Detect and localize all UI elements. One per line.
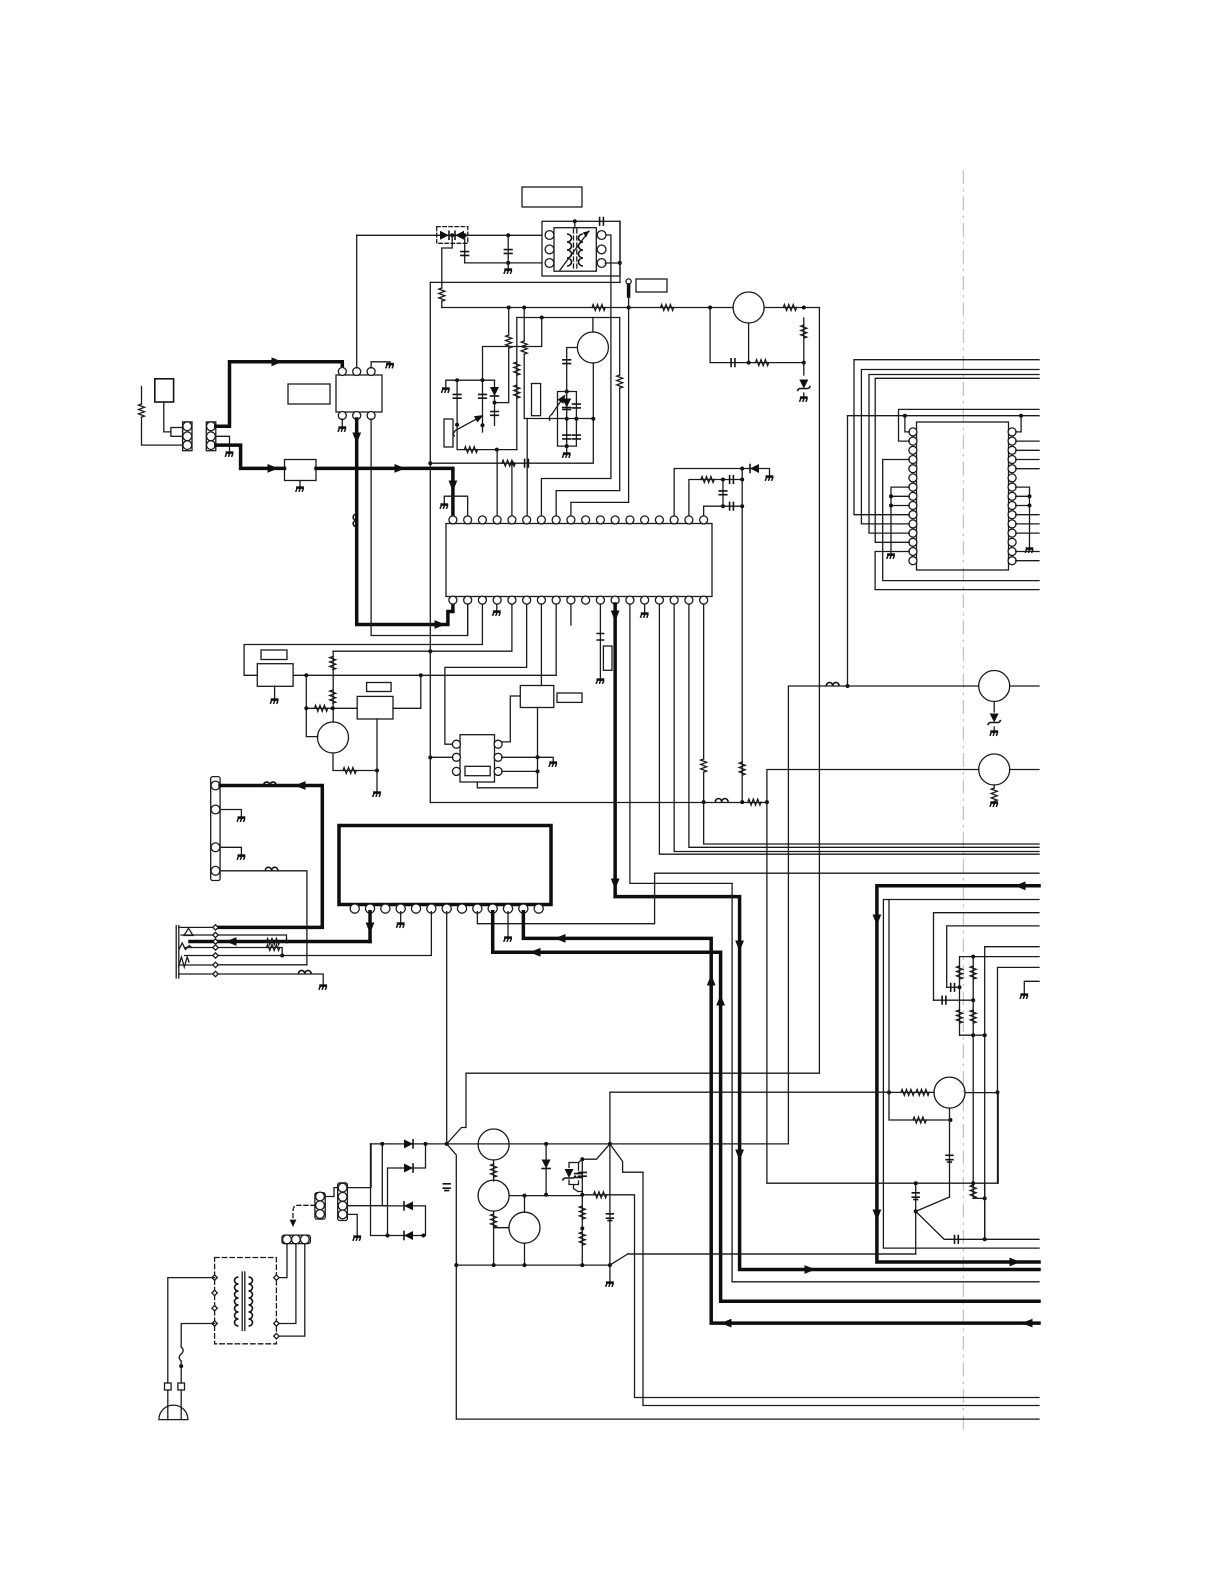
pin U2-18 top (700, 516, 708, 524)
junction bridge d (421, 1234, 425, 1238)
junction Q1 right (802, 306, 806, 310)
IC U2 (446, 524, 712, 597)
wire node diag down (916, 1211, 1039, 1239)
wire x997 drop (997, 1092, 999, 1183)
resistor R15 (701, 477, 714, 483)
pin T1 R2 (597, 245, 606, 254)
junction bead-rail (627, 306, 631, 310)
pin U4-4 (396, 904, 405, 913)
arrowhead down into IC2 pin1 (449, 481, 458, 492)
wire oscA diode leg (494, 380, 496, 402)
pin U2-34 bottom (478, 596, 486, 604)
wire lower link line (465, 262, 542, 264)
wire rail y956 (960, 956, 1040, 958)
wire R33 branch (973, 1183, 985, 1198)
wire M2 bottom (376, 719, 378, 771)
tap T2-L3 (212, 1306, 217, 1311)
diode pair dashed box (437, 227, 468, 244)
junction oscA a (455, 378, 459, 382)
plug body (171, 428, 183, 437)
wire U5 pin15R stub (1016, 560, 1039, 562)
wire varicap ground leg (566, 446, 568, 452)
ground IC3 right (549, 763, 557, 767)
junction bridge b (424, 1142, 428, 1146)
wire rail y377 (875, 378, 1039, 542)
junction x742 bot (740, 504, 744, 508)
inductor L1 (353, 514, 357, 527)
plug prong B (178, 1383, 185, 1390)
pin U2-13 top (626, 516, 634, 524)
wire CN5-3 tap (276, 1244, 304, 1337)
pin CN3-3 (316, 1210, 325, 1219)
junction osc line c (591, 417, 595, 421)
diode D1b (455, 231, 464, 241)
bus jog (610, 1254, 916, 1265)
contact d5 (213, 953, 218, 958)
label box M2 (367, 683, 392, 692)
pin U2-24 bottom (626, 596, 634, 604)
transistor Q2 (577, 332, 608, 363)
arrowhead U1 out down (352, 433, 361, 444)
transistor Q7 regulator (478, 1129, 509, 1160)
wire node cap leg (628, 1183, 916, 1254)
pin U4-2 (365, 904, 374, 913)
ground pin2t (440, 505, 448, 509)
ground varicap (562, 454, 570, 458)
ground R25 (990, 803, 998, 807)
wire x984 drop (984, 1035, 986, 1239)
junction y1183 a (914, 1181, 918, 1185)
wire pin5t riser (511, 463, 513, 515)
wire x517 chain (516, 318, 518, 450)
wire CN-B2 to ground (216, 436, 230, 451)
transformer T2 dashed box (215, 1258, 277, 1344)
wire Q2 top (592, 318, 594, 333)
capacitor C24 electrolytic (443, 1184, 451, 1191)
transistor Q3-af (318, 722, 349, 753)
wire Q9 emitter (524, 1243, 526, 1265)
capacitor C4 (731, 358, 735, 367)
resistor R2 (439, 288, 445, 301)
Y junction right diag (447, 1144, 1039, 1419)
transistor Q8 regulator (478, 1180, 509, 1211)
contact d3 (213, 939, 218, 944)
capacitor C23 (574, 1174, 583, 1178)
Y arm link2 (610, 1144, 643, 1172)
ground X1 (596, 680, 604, 684)
wire bus ground leg (609, 1265, 611, 1281)
junction M1 right (304, 673, 308, 677)
pin U2-1 top (449, 516, 457, 524)
junction y956 (971, 955, 975, 959)
resistor R22 (343, 768, 356, 774)
wire bus y1265 (456, 1264, 610, 1266)
coil T1 primary (567, 234, 572, 266)
transistor Q6 (934, 1077, 965, 1108)
wire oscA bottom (457, 425, 517, 450)
jack contact 2 (179, 943, 192, 950)
pin U2-28 bottom (567, 596, 575, 604)
junction U5L g2 (889, 504, 893, 508)
diode D1a (440, 231, 449, 241)
wire Q4 zener leg (993, 702, 995, 713)
transistor Q4 (979, 671, 1010, 702)
wire R8 down to osc line (524, 354, 527, 419)
resistor R21 (330, 690, 336, 703)
inductor L5 (298, 970, 311, 974)
junction U5R g1 (1028, 494, 1032, 498)
varactor D3 (562, 399, 572, 408)
resistor R3 (617, 375, 623, 388)
antenna box (155, 379, 174, 402)
arrowhead U4 pin12 up (707, 975, 716, 986)
wire pin14L loop (875, 552, 1039, 590)
junction y506 x723 (721, 504, 725, 508)
ground pin4b (493, 612, 501, 616)
arrowhead rail 1269 (805, 1265, 816, 1274)
inductor L2 (715, 798, 728, 802)
resistor R10 (801, 325, 807, 338)
capacitor C18 electrolytic (945, 1155, 953, 1162)
junction M2 bottom (375, 769, 379, 773)
resistor R20 (330, 657, 336, 670)
wire U1 pin2 riser (356, 235, 358, 368)
IC U3 (460, 735, 495, 782)
wire U3 pin2 link (430, 756, 453, 758)
junction Q9 top (523, 1194, 527, 1198)
wire T1 inner to top (574, 221, 576, 227)
resistor R19 (315, 705, 328, 711)
pin U4-9 (473, 904, 482, 913)
wire x508 branch (508, 308, 510, 336)
pin U3-3 (452, 767, 460, 775)
junction oscA d (481, 423, 485, 427)
pin U2-9 top (567, 516, 575, 524)
ground CN2-2 (237, 818, 245, 822)
pin U2-33 bottom (493, 596, 501, 604)
wire U1 pin5 to IC2 (thick) (357, 419, 453, 625)
wire pin4L loop (883, 460, 1039, 581)
wire rail y409 (899, 409, 1040, 441)
transistor Q1 (733, 292, 764, 323)
wire riser x620 to pin8t (619, 318, 621, 376)
arrowhead into IN1 (268, 464, 279, 473)
junction y802 left (702, 800, 706, 804)
wire rail y374 (869, 375, 1039, 534)
pin U1-5 bottom (353, 412, 361, 420)
junction y686 (846, 684, 850, 688)
wire pin18b drop (703, 604, 705, 759)
junction y802 right (765, 800, 769, 804)
fold line (dash-dot) (962, 170, 964, 1432)
junction y317 (540, 316, 544, 320)
arrowhead rail1323 a (721, 1319, 732, 1328)
pin U5-12 left (909, 529, 917, 537)
wire pin4b ground (496, 604, 498, 610)
wire x524 branch (523, 308, 525, 342)
wire rail y415 (848, 415, 1040, 417)
junction Q1 emitter (747, 361, 751, 365)
arrowhead pin12b (611, 611, 620, 622)
wire T2 primary top (168, 1278, 215, 1383)
wire crystal leg (599, 604, 601, 678)
junction T1 top (573, 219, 577, 223)
pin U4-13 (534, 904, 543, 913)
ground CN-B2 (225, 453, 233, 457)
resistor R7 (506, 335, 512, 348)
junction bus q8 (492, 1263, 496, 1267)
junction osc line a (565, 417, 569, 421)
junction oscA b (481, 378, 485, 382)
wire Q5 right (1010, 769, 1039, 771)
wire y317 link (517, 317, 620, 319)
contact d2 (213, 932, 218, 937)
pin U5-16 right (1008, 557, 1016, 565)
jack bracket (176, 926, 179, 979)
resistor R30 (901, 1089, 914, 1095)
resistor R23 (267, 939, 280, 945)
wire oscA mid leg (482, 425, 484, 432)
wire reg right line (582, 1195, 1039, 1398)
Y junction left diag (447, 1073, 466, 1144)
junction main node (608, 1142, 612, 1146)
wire pin18t riser (704, 506, 743, 516)
pin T1 R3 (597, 259, 606, 268)
junction fuse (179, 1364, 183, 1368)
wire Q6 right lead (965, 1092, 998, 1094)
junction y1239 (983, 1237, 987, 1241)
wire pin17b drop (689, 604, 1039, 847)
wire Q8 base line (509, 1195, 582, 1197)
wire plug lead A (167, 1390, 169, 1420)
wire U5 pin14R stub (1016, 551, 1039, 553)
transistor Q9 regulator (509, 1212, 540, 1243)
capacitor C10 (572, 404, 581, 408)
contact d7 (213, 971, 218, 976)
arrowhead thickU in (1015, 881, 1026, 890)
wire CN-B3 to IN1 (thick) (216, 445, 285, 468)
coil T2 primary (235, 1277, 239, 1326)
wire Q5 resistor leg (993, 785, 995, 788)
trimmer arrow oscB (552, 398, 563, 414)
pin CN4-4 (338, 1210, 347, 1219)
wire U5 pin11R stub (1016, 523, 1039, 525)
wire U5 pin12R stub (1016, 532, 1039, 534)
contact d4 (213, 945, 218, 950)
pin CN5-2 (292, 1235, 301, 1244)
wire M2 ground (376, 771, 378, 792)
label box T1 (522, 187, 582, 207)
wire pin2b fan (467, 604, 469, 636)
resistor R25 (991, 788, 997, 801)
wire resistor to CN-A (142, 417, 184, 445)
junction C16 right (958, 985, 962, 989)
ground U4 pin4 (396, 924, 404, 928)
tap T2-R3 (274, 1333, 279, 1338)
resistor R26 (957, 966, 963, 979)
junction U5R g2 (1028, 504, 1032, 508)
diode D9 (541, 1160, 551, 1169)
junction D2 bottom (493, 401, 497, 405)
wire cluster right leg2 (972, 1000, 974, 1035)
junction cap C1 top (463, 233, 467, 237)
wire jack line3 thick (190, 940, 370, 944)
ground U5 right (1025, 549, 1033, 553)
Y left arm (582, 1144, 610, 1159)
pin CN4-3 (338, 1201, 347, 1210)
pin CN5-1 (283, 1235, 292, 1244)
arrowhead jack3 (226, 937, 237, 946)
pin U2-2 top (464, 516, 472, 524)
tap T2-L4 (212, 1321, 217, 1326)
arrowhead to IC2 (395, 464, 406, 473)
pin U2-30 bottom (537, 596, 545, 604)
tap T2-L2 (212, 1290, 217, 1295)
junction arm top (580, 1157, 584, 1161)
transistor Q5 (979, 754, 1010, 785)
label box U1 (288, 384, 330, 404)
wire Q1 right lead (764, 307, 819, 309)
AC plug body (159, 1405, 188, 1420)
arrowhead U4 pin10 up (716, 995, 725, 1006)
junction clus b (983, 1033, 987, 1037)
inductor L6 (826, 682, 839, 686)
resistor R28 (957, 1010, 963, 1023)
wire Q9 base lead (494, 1227, 509, 1229)
wire zener to ground (803, 393, 805, 396)
pin U1-1 top (338, 368, 346, 376)
label box U3 (465, 766, 490, 775)
wire U4 pin6 via jack line (282, 912, 431, 956)
wire y769 line (767, 770, 979, 803)
arrowhead p12 down1 (735, 941, 744, 952)
ground D4 (765, 477, 773, 481)
ground CN2-3 (237, 856, 245, 860)
resistor R27 (970, 966, 976, 979)
wire bridge r1 (423, 1144, 425, 1168)
wire R2 to rail (441, 301, 443, 308)
pin U2-16 top (670, 516, 678, 524)
capacitor C6 (478, 394, 487, 398)
pin U5-14 left (909, 548, 917, 556)
wire M1 right line (293, 674, 556, 676)
ground U4 pin11 (504, 938, 512, 942)
pin U3-1 (452, 740, 460, 748)
wire U1 pin6 to IC2 pin2b (371, 419, 468, 636)
wire pin6b fan (445, 604, 527, 744)
wire fuse to plug (180, 1361, 182, 1383)
pin CN-A 1 (183, 422, 192, 431)
IC U4 (power amp) (339, 826, 551, 905)
arrowhead p12 down2 (735, 1150, 744, 1161)
junction R19 left (304, 706, 308, 710)
wire main rail y307 (442, 307, 733, 309)
pin U4-8 (457, 904, 466, 913)
diode D5 (404, 1139, 413, 1149)
junction rail415 b (1019, 414, 1023, 418)
arrowhead thickU out (1010, 1258, 1021, 1267)
wire x888 lower (889, 1092, 950, 1120)
ground bus (606, 1283, 614, 1287)
capacitor C9 (562, 360, 571, 364)
arrowhead thickU down (873, 915, 882, 926)
pin CN2-3 (211, 843, 220, 852)
wire B1 left to IC3 (502, 696, 520, 742)
wire R19 row (306, 707, 357, 709)
connector CN-B body (206, 422, 216, 451)
pin U5-5 left (909, 465, 917, 473)
pin U5-25 right (1008, 474, 1016, 482)
wire supply riser right (788, 686, 978, 1144)
junction rail415 a (903, 414, 907, 418)
wire pin5b fan (333, 604, 512, 651)
pin T1 R1 (597, 231, 606, 240)
module M1 (257, 664, 293, 687)
pin U5-13 left (909, 538, 917, 546)
wire IC3 ground link (538, 757, 554, 761)
inductor L3 (264, 782, 277, 786)
wire pin16t riser (674, 469, 742, 517)
pin U2-23 bottom (641, 596, 649, 604)
wire Q6 bottom (949, 1108, 951, 1197)
pin U2-10 top (582, 516, 590, 524)
capacitor C17 (942, 996, 946, 1005)
junction C2 bottom (506, 261, 510, 265)
pin U2-11 top (596, 516, 604, 524)
junction bus main (608, 1263, 612, 1267)
wire CN-B1 to IC1 pin1 (thick) (216, 362, 342, 427)
wire CN2-2 ground (220, 810, 241, 817)
wire Q2 left lead (567, 348, 578, 392)
capacitor C7 (490, 412, 499, 416)
wire plug lead B (180, 1390, 182, 1420)
wire pin1R jog (1016, 416, 1021, 432)
wire cap H1 link (947, 986, 960, 988)
junction x742 mid (740, 478, 744, 482)
resistor R24 (267, 945, 280, 951)
pin U5-8 left (909, 492, 917, 500)
wire cluster left leg (959, 957, 961, 988)
wire jack line2 (181, 935, 287, 942)
wire x847 drop (847, 416, 849, 686)
connector CN-A body (183, 422, 192, 451)
wire varicap centre (566, 392, 568, 447)
wire M2 right riser (393, 675, 421, 708)
wire CN2-1 thick loop (218, 786, 322, 928)
wire Q1 base drop (710, 308, 804, 363)
pin CN3-2 (316, 1201, 325, 1210)
wire Q9 collector (524, 1196, 526, 1213)
wire pin16b drop (674, 604, 1039, 852)
ground M2 (373, 793, 381, 797)
junction C2 top (506, 233, 510, 237)
pin CN-B 1 (207, 422, 216, 431)
arrowhead rail1323 b (1022, 1319, 1033, 1328)
wire x973 lower (972, 1035, 974, 1183)
diode D2 (490, 387, 500, 396)
ground CN4-4 (353, 1237, 361, 1241)
wire pin17t riser (689, 480, 742, 517)
arrowhead into IC2 pin1b (435, 620, 446, 629)
wire antenna stub (141, 387, 143, 405)
wire U4 pin12 thick (523, 912, 1039, 1323)
pin U5-7 left (909, 483, 917, 491)
wire U5 pin4R stub (1016, 459, 1039, 461)
pin U5-28 right (1008, 446, 1016, 454)
wire U3 bottom loop (477, 771, 537, 787)
wire R17 to y844 (704, 772, 1039, 844)
wire cluster left leg2 (959, 987, 961, 1035)
